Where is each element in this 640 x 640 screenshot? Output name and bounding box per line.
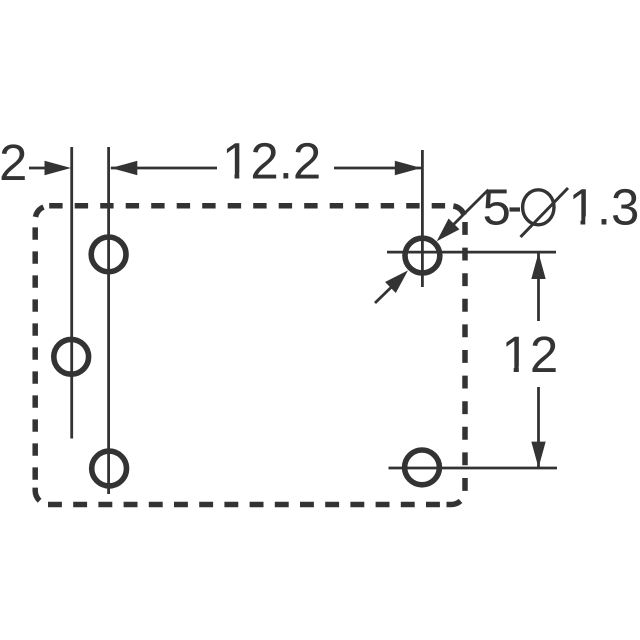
svg-text:1.3: 1.3 [569, 179, 640, 236]
svg-text:2: 2 [0, 134, 27, 191]
svg-text:5: 5 [483, 179, 511, 236]
svg-text:12.2: 12.2 [222, 133, 321, 190]
